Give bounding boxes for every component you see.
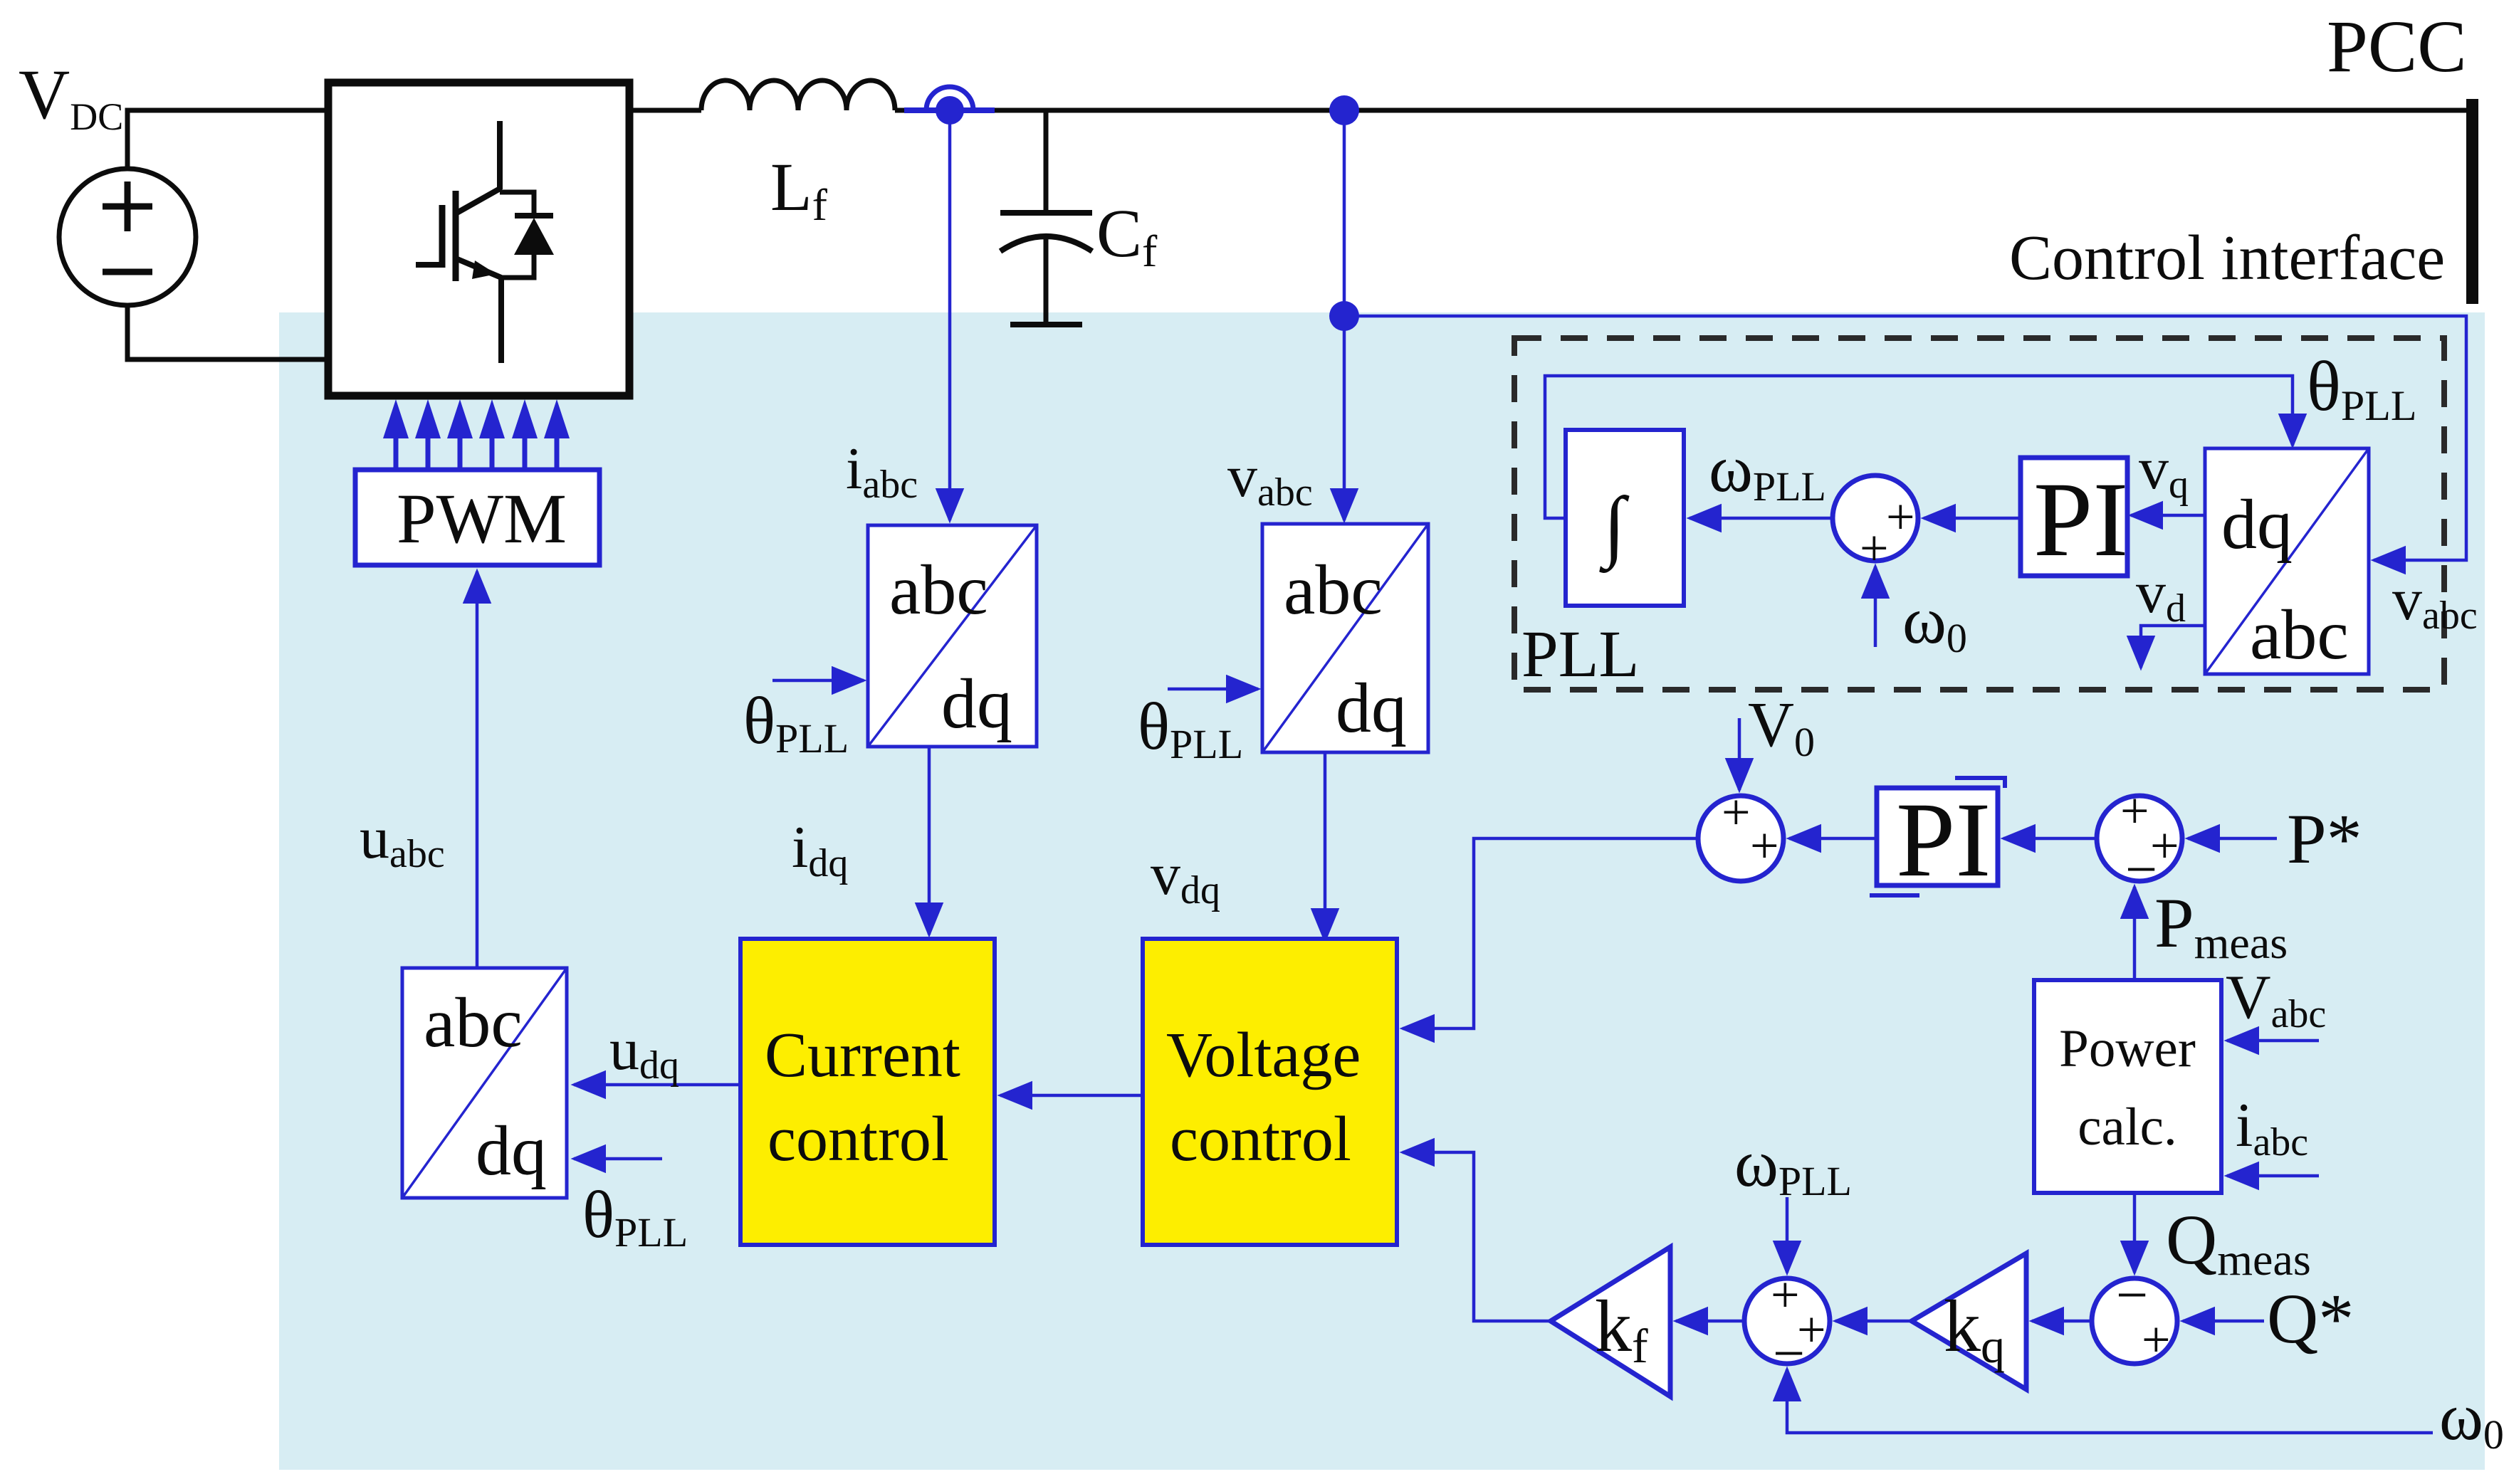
svg-text:∫: ∫ <box>1599 481 1630 574</box>
svg-text:VDC: VDC <box>19 55 123 138</box>
wire S4 to kq <box>2032 1320 2092 1323</box>
label thetaPLL U3 <box>582 1178 688 1256</box>
transform block abc/dq U4 (current) <box>868 525 1037 747</box>
dc source VDC <box>59 169 196 305</box>
PI block power <box>1870 778 2005 899</box>
label omega0 PLL <box>1902 584 1967 661</box>
label Pstar <box>2287 799 2362 878</box>
label vq <box>2139 436 2189 507</box>
svg-text:PI: PI <box>2033 461 2128 579</box>
label Lf <box>770 149 828 230</box>
transform block dq/abc U6 (PLL) <box>2205 448 2369 674</box>
svg-text:Voltage: Voltage <box>1166 1020 1361 1090</box>
svg-text:Cf: Cf <box>1096 195 1158 276</box>
label Cf <box>1096 195 1158 276</box>
summing junction S3 <box>1744 1266 1830 1385</box>
svg-text:+: + <box>2120 782 2149 839</box>
svg-text:Power: Power <box>2059 1019 2196 1078</box>
wire thetaPLL into U5 <box>1168 688 1258 691</box>
transistor Q1 (IGBT with diode) <box>416 121 554 363</box>
wire voltage to current control <box>1000 1094 1143 1098</box>
PI block PLL <box>2021 458 2128 579</box>
wires PWM gate signals (6 arrows) <box>383 399 570 468</box>
label Qmeas <box>2166 1200 2311 1285</box>
label V0 <box>1748 690 1815 765</box>
label thetaPLL top <box>2307 347 2417 429</box>
wire S3 to kf <box>1676 1320 1744 1323</box>
label Qstar <box>2267 1279 2354 1358</box>
svg-text:abc: abc <box>889 550 988 629</box>
svg-text:+: + <box>1771 1266 1800 1323</box>
label iabc <box>846 436 918 507</box>
wire thetaPLL into U3 <box>574 1157 662 1161</box>
wire main bus <box>895 108 2467 113</box>
summing junction S4 <box>2092 1264 2177 1368</box>
wire iabc into power calc <box>2227 1174 2319 1178</box>
svg-text:Control interface: Control interface <box>2009 223 2445 293</box>
svg-text:PLL: PLL <box>1521 618 1639 691</box>
svg-text:+: + <box>1886 488 1915 545</box>
wire omegaPLL into S3 <box>1786 1197 1789 1273</box>
label thetaPLL U5 <box>1138 690 1243 767</box>
wire converter to inductor <box>629 108 701 113</box>
wire vabc measurement <box>1343 316 1346 520</box>
PWM block <box>355 470 599 565</box>
node PCC bar <box>2466 99 2478 304</box>
svg-text:Current: Current <box>765 1020 960 1090</box>
integrator block <box>1566 430 1684 606</box>
gain kf <box>1551 1247 1670 1396</box>
svg-text:+: + <box>1722 784 1751 841</box>
block power calc <box>2034 980 2221 1193</box>
wire sum to integrator <box>1690 517 1833 520</box>
svg-text:+: + <box>1750 817 1779 874</box>
converter U1 <box>328 83 629 396</box>
wire dc plus <box>127 110 328 169</box>
svg-text:abc: abc <box>1284 550 1383 629</box>
label omega0 bottom <box>2439 1380 2504 1458</box>
svg-text:control: control <box>1170 1104 1351 1174</box>
wire vdq <box>1324 752 1327 940</box>
wire omega0 into S3 <box>1787 1369 2433 1433</box>
label Vabc power <box>2226 963 2326 1036</box>
svg-text:abc: abc <box>2250 595 2349 674</box>
label Control interface <box>2009 223 2445 293</box>
wire vd <box>2141 626 2205 668</box>
node vabc tap <box>1329 95 1359 125</box>
svg-text:−: − <box>1773 1322 1805 1385</box>
svg-text:PWM: PWM <box>397 479 567 558</box>
summing junction S1 <box>1698 784 1783 881</box>
label PLL <box>1521 618 1639 691</box>
wire iabc measurement <box>948 110 952 520</box>
label vd <box>2136 559 2186 631</box>
wire PI2 to S1 <box>1789 837 1877 841</box>
label VDC <box>19 55 123 138</box>
control region background <box>279 312 2485 1470</box>
svg-text:+: + <box>2142 1311 2171 1368</box>
wire udq into U3 <box>574 1083 740 1087</box>
label omegaPLL <box>1709 432 1826 510</box>
svg-text:abc: abc <box>424 983 523 1062</box>
label iabc power <box>2236 1091 2308 1164</box>
capacitor Cf <box>1000 112 1092 325</box>
svg-text:−: − <box>2125 838 2157 901</box>
label udq <box>609 1016 679 1088</box>
wire dc minus <box>127 305 328 359</box>
block current control <box>740 939 995 1245</box>
summing junction S2 <box>2097 782 2182 901</box>
label Pmeas <box>2154 883 2288 968</box>
label uabc <box>360 805 445 876</box>
transform block abc/dq U5 (voltage) <box>1262 524 1428 752</box>
wire Qstar <box>2183 1320 2264 1323</box>
label idq <box>792 814 848 885</box>
transform block abc/dq U3 (modulation) <box>402 968 567 1198</box>
wire Pmeas <box>2133 887 2137 980</box>
wire PI to sum PLL <box>1924 517 2021 520</box>
gain kq <box>1912 1253 2026 1389</box>
wire vabc down <box>1343 110 1346 316</box>
svg-text:dq: dq <box>941 664 1012 743</box>
wire Qmeas <box>2133 1193 2137 1273</box>
node iabc tap <box>904 87 995 125</box>
block voltage control <box>1143 939 1397 1245</box>
label vabc <box>1227 443 1313 515</box>
wire vabc feed to PLL <box>1344 316 2466 560</box>
label PCC <box>2327 6 2467 88</box>
wire Pstar <box>2188 837 2277 841</box>
wire kf to voltage control <box>1403 1152 1551 1321</box>
wire omega0 into PLL sum <box>1874 567 1877 647</box>
node vabc branch <box>1329 301 1359 331</box>
label vdq <box>1151 841 1220 912</box>
svg-text:ω0: ω0 <box>2439 1380 2504 1458</box>
wire idq <box>928 747 931 935</box>
inductor Lf <box>701 80 895 110</box>
wire S2 to PI2 <box>2003 837 2097 841</box>
svg-text:dq: dq <box>476 1111 547 1190</box>
svg-text:Q*: Q* <box>2267 1279 2354 1358</box>
wire thetaPLL into U4 <box>772 679 864 683</box>
label vabc right <box>2392 567 2478 638</box>
svg-text:PI: PI <box>1896 781 1991 899</box>
wire vq <box>2131 514 2205 517</box>
summing junction PLL <box>1833 475 1918 577</box>
wire kq to S3 <box>1835 1320 1912 1323</box>
svg-text:PCC: PCC <box>2327 6 2467 88</box>
svg-text:calc.: calc. <box>2078 1098 2176 1157</box>
wire V0 <box>1738 718 1741 790</box>
label omegaPLL bottom <box>1734 1127 1852 1204</box>
wire S1 to voltage control <box>1403 838 1698 1028</box>
wire uabc into PWM <box>476 572 479 968</box>
PLL dashed box <box>1514 338 2444 690</box>
svg-text:dq: dq <box>1336 668 1407 747</box>
svg-text:P*: P* <box>2287 799 2362 878</box>
svg-text:dq: dq <box>2221 485 2293 564</box>
wire Vabc into power calc <box>2227 1039 2319 1043</box>
wire thetaPLL feedback <box>1545 376 2293 518</box>
svg-text:Lf: Lf <box>770 149 828 230</box>
label thetaPLL U4 <box>743 684 849 762</box>
svg-text:control: control <box>768 1104 949 1174</box>
